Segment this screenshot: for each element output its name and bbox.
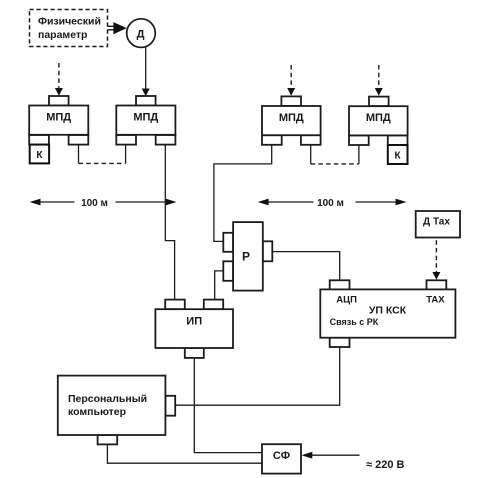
- svg-text:Персональный: Персональный: [68, 393, 147, 405]
- svg-text:К: К: [36, 150, 43, 161]
- wire: МПД3 right leg down: [310, 145, 312, 164]
- connector К (below МПД4): [388, 145, 408, 164]
- wire: Р bottom-left tab → ИП right tab: [215, 271, 224, 300]
- dashed box: Физический параметр: [30, 10, 108, 47]
- sensor Д (circle): [127, 19, 156, 48]
- block СФ (mains filter): [262, 444, 301, 473]
- svg-text:ИП: ИП: [186, 316, 202, 328]
- dashed arrow into МПД1: [55, 63, 63, 96]
- svg-text:МПД: МПД: [133, 112, 158, 124]
- svg-text:Связь с РК: Связь с РК: [330, 317, 379, 327]
- block Д Тах: [416, 211, 460, 238]
- wire: dashed link МПД3 ↔ МПД4: [311, 163, 359, 165]
- wire: ПК bottom tab → СФ (lower input): [107, 444, 262, 463]
- svg-text:АЦП: АЦП: [336, 294, 357, 305]
- svg-text:К: К: [395, 150, 402, 161]
- wire: МПД2 right leg → ИП left tab: [165, 145, 174, 300]
- block МПД1: [29, 96, 88, 145]
- dashed arrow into МПД4: [375, 65, 383, 96]
- svg-text:СФ: СФ: [273, 450, 290, 462]
- svg-text:Физический: Физический: [38, 16, 101, 28]
- arrow: физический параметр → Д (double-line arrow): [108, 22, 127, 34]
- dashed arrow into МПД3: [287, 65, 295, 96]
- dimension arrow 100 м (right): [258, 195, 407, 209]
- svg-text:параметр: параметр: [38, 29, 87, 41]
- svg-text:100 м: 100 м: [81, 198, 108, 209]
- svg-text:100 м: 100 м: [317, 198, 344, 209]
- wire: МПД3 left leg → Р top-left tab: [214, 145, 272, 242]
- wire: dashed link МПД1 ↔ МПД2: [79, 162, 126, 164]
- svg-text:компьютер: компьютер: [68, 406, 126, 418]
- block УП КСК: [320, 280, 455, 347]
- block МПД3: [262, 96, 321, 144]
- svg-text:Д: Д: [137, 29, 145, 41]
- svg-text:МПД: МПД: [46, 112, 71, 124]
- block МПД4: [349, 97, 408, 145]
- arrow: ≈220 В → СФ: [302, 452, 360, 459]
- dimension arrow 100 м (left): [30, 195, 177, 209]
- wire: МПД1 right leg down: [78, 145, 80, 164]
- svg-text:МПД: МПД: [279, 112, 304, 124]
- wire: МПД4 left leg down: [358, 145, 360, 164]
- block МПД2: [116, 96, 175, 145]
- connector К (below МПД1): [30, 145, 49, 164]
- svg-text:УП КСК: УП КСК: [369, 305, 407, 317]
- wire: Д → МПД2 top tab (solid arrow): [142, 46, 150, 96]
- block Р (repeater): [223, 222, 272, 291]
- svg-text:МПД: МПД: [366, 112, 391, 124]
- svg-text:Д Тах: Д Тах: [423, 216, 450, 227]
- wire: МПД2 left leg down: [125, 145, 127, 164]
- wire: ИП bottom tab → СФ (upper input): [194, 358, 262, 453]
- block ИП: [155, 300, 233, 358]
- svg-text:ТАХ: ТАХ: [426, 294, 445, 305]
- wire: Р right tab → АЦП tab of УП КСК: [272, 252, 339, 281]
- wire: УП КСК bottom tab → ПК right tab: [175, 347, 340, 405]
- svg-text:≈ 220 В: ≈ 220 В: [366, 459, 405, 471]
- block Персональный компьютер: [58, 376, 175, 445]
- svg-text:Р: Р: [242, 250, 250, 264]
- dashed arrow: Д Тах → ТАХ tab: [432, 240, 440, 280]
